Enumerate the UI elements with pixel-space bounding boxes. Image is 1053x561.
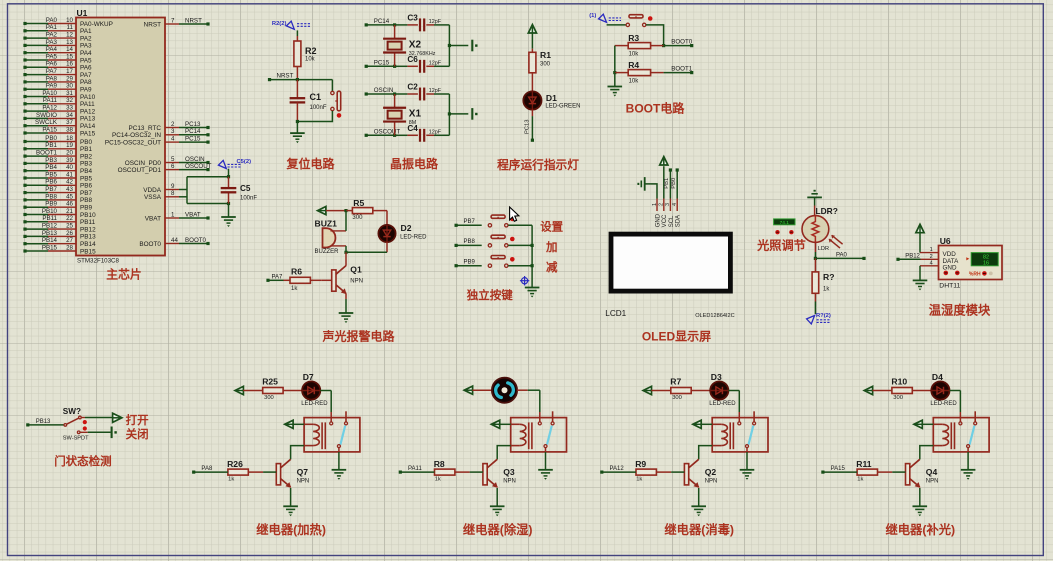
led D7 LED-RED: [302, 381, 320, 399]
svg-text:R3: R3: [628, 33, 639, 43]
pin PB5 of U1 (pin 41, net PB5): [48, 177, 76, 179]
capacitor C1: [296, 80, 298, 99]
svg-text:BUZ1: BUZ1: [315, 219, 338, 229]
svg-text:19: 19: [66, 142, 73, 149]
svg-text:R5: R5: [353, 198, 364, 208]
svg-text:PA12: PA12: [610, 466, 625, 472]
pin PB1 of U1 (pin 19, net PB1): [48, 148, 76, 150]
terminal dot PC13: [531, 139, 534, 142]
svg-text:PB1: PB1: [80, 146, 93, 153]
pin GND of LCD1 (pin 1): [656, 199, 658, 212]
ground (relay contact 消毒): [740, 469, 755, 471]
svg-text:PA15: PA15: [831, 466, 846, 472]
svg-text:8: 8: [171, 190, 175, 197]
wire net PB1 (SCL): [669, 170, 671, 199]
power terminal (消毒): [643, 386, 651, 394]
svg-text:39: 39: [66, 157, 73, 164]
svg-text:U1: U1: [77, 8, 88, 18]
svg-text:设置: 设置: [540, 220, 563, 234]
pin VCC of LCD1 (pin 2): [663, 199, 665, 212]
wire coil to collector (除湿): [497, 446, 511, 460]
wire VDDA/VSSA to C5: [179, 189, 187, 191]
wire coil to collector (补光): [920, 446, 934, 460]
svg-text:12pF: 12pF: [429, 88, 442, 94]
svg-text:R1: R1: [540, 50, 551, 60]
svg-text:声光报警电路: 声光报警电路: [321, 329, 395, 344]
svg-text:PA9: PA9: [80, 87, 92, 94]
pin VDD of U6 (pin 1): [920, 252, 939, 254]
dht11 U6 body: [939, 246, 1003, 280]
svg-text:14: 14: [66, 46, 73, 53]
power terminal (indicator): [528, 25, 536, 33]
wire net PA15: [823, 471, 857, 473]
pin PB7 of U1 (pin 43, net PB7): [48, 192, 76, 194]
relay coil (加热): [304, 423, 313, 425]
svg-text:R11: R11: [856, 459, 872, 469]
svg-text:12: 12: [66, 32, 73, 39]
junction C5 bottom: [227, 202, 230, 205]
svg-text:门状态检测: 门状态检测: [54, 454, 111, 468]
svg-text:32: 32: [66, 97, 73, 104]
power terminal (alarm): [318, 207, 326, 215]
junction OSCIN/X1: [393, 92, 396, 95]
svg-text:30: 30: [66, 83, 73, 90]
svg-text:GND: GND: [943, 265, 957, 272]
led D2 LED-RED: [378, 225, 395, 242]
power terminal (补光): [864, 386, 872, 394]
resistor R? 1k: [814, 258, 816, 272]
svg-text:D1: D1: [546, 93, 557, 103]
svg-text:PA4: PA4: [46, 46, 58, 53]
transistor Q7 NPN: [276, 464, 280, 485]
svg-text:74.1: 74.1: [780, 220, 790, 226]
svg-text:VCC: VCC: [662, 214, 668, 227]
capacitor C4 12pF: [395, 134, 408, 136]
svg-text:R2(2): R2(2): [272, 21, 287, 27]
wire reset button bottom: [297, 111, 332, 122]
ground (DHT11): [913, 279, 928, 281]
svg-text:4: 4: [930, 260, 933, 266]
wire R2 top: [296, 30, 298, 36]
svg-text:4: 4: [171, 136, 175, 143]
svg-text:34: 34: [66, 112, 73, 119]
relay RL (消毒) body: [712, 418, 768, 452]
svg-text:PB0: PB0: [45, 135, 57, 142]
svg-text:1k: 1k: [435, 477, 441, 483]
push-button (BOOT0): [626, 23, 629, 26]
ground (relay contact 加热): [332, 469, 347, 471]
svg-text:C5: C5: [240, 184, 251, 193]
wire net PA0: [815, 257, 864, 259]
wire VCC of LCD1 to power: [663, 166, 665, 198]
dht buttons: [944, 271, 949, 276]
svg-text:D7: D7: [303, 372, 314, 382]
svg-text:12pF: 12pF: [429, 61, 442, 67]
svg-text:PB4: PB4: [80, 168, 93, 175]
svg-text:PB7: PB7: [464, 219, 476, 225]
svg-text:PA7: PA7: [46, 68, 58, 75]
svg-text:Q4: Q4: [926, 467, 938, 477]
svg-text:32.768KHz: 32.768KHz: [409, 51, 436, 57]
svg-text:LED-RED: LED-RED: [301, 401, 328, 407]
svg-text:LED-GREEN: LED-GREEN: [545, 104, 580, 110]
svg-text:16: 16: [983, 261, 989, 267]
junction OSCOUT/X1: [393, 134, 396, 137]
wire relay common to ground (消毒): [746, 452, 748, 470]
svg-text:D4: D4: [932, 372, 943, 382]
svg-text:X2: X2: [409, 40, 422, 51]
svg-text:PA1: PA1: [80, 28, 92, 35]
svg-text:28: 28: [66, 244, 73, 251]
svg-text:PA8: PA8: [46, 75, 58, 82]
svg-text:LED-RED: LED-RED: [709, 401, 736, 407]
pin PB9 of U1 (pin 46, net PB9): [48, 206, 76, 208]
svg-text:PB9: PB9: [80, 205, 93, 212]
wire net BOOT1: [664, 72, 692, 74]
junction LDR/PA0/R?: [814, 257, 817, 260]
svg-text:31: 31: [66, 90, 73, 97]
svg-text:NPN: NPN: [350, 279, 363, 285]
svg-text:R4: R4: [628, 60, 639, 70]
resistor R3 10k: [615, 45, 628, 47]
wire net OSCIN: [366, 93, 394, 95]
svg-text:PA7: PA7: [272, 274, 284, 280]
pin PB14 of U1 (pin 27, net PB14): [48, 243, 76, 245]
svg-text:PC13: PC13: [525, 119, 531, 134]
svg-text:27: 27: [66, 237, 73, 244]
fan/motor symbol: [492, 378, 517, 403]
wire net PB9: [456, 265, 482, 267]
wire GND of LCD1 to side ground: [645, 184, 657, 199]
transistor Q3 NPN: [483, 464, 487, 485]
power terminal (coil 补光): [914, 420, 922, 428]
svg-text:BOOT电路: BOOT电路: [626, 101, 686, 116]
svg-text:R26: R26: [227, 459, 243, 469]
svg-text:2: 2: [171, 121, 175, 128]
svg-text:NRST: NRST: [185, 17, 202, 24]
resistor R2: [296, 36, 298, 41]
junction PC14/X2: [393, 23, 396, 26]
svg-text:Q3: Q3: [503, 467, 515, 477]
brightness display (74.1): [774, 219, 795, 225]
svg-text:26: 26: [66, 230, 73, 237]
adjust dot +: [789, 230, 793, 234]
svg-text:SW-SPDT: SW-SPDT: [63, 435, 89, 441]
relay lever (cyan) (消毒): [749, 426, 754, 445]
junction C5 top: [227, 175, 230, 178]
wire net NRST (reset node): [270, 79, 333, 81]
push-button (PB9): [488, 264, 491, 267]
svg-text:PB12: PB12: [905, 253, 920, 259]
svg-text:100nF: 100nF: [240, 196, 257, 202]
push-button (PB7): [488, 224, 491, 227]
svg-text:37: 37: [66, 119, 73, 126]
svg-text:PA4: PA4: [80, 50, 92, 57]
wire D7 to relay: [320, 390, 331, 392]
svg-text:R7: R7: [670, 377, 681, 387]
pin VSSA of U1 (pin 8): [165, 196, 179, 198]
resistor R1 300: [531, 49, 533, 53]
svg-text:PA9: PA9: [46, 83, 58, 90]
pin PB0 of U1 (pin 18, net PB0): [48, 141, 76, 143]
svg-text:44: 44: [171, 237, 178, 244]
svg-text:继电器(加热): 继电器(加热): [256, 522, 326, 537]
pin GND of U6 (pin 4): [920, 265, 939, 267]
power terminal (除湿): [464, 386, 472, 394]
svg-text:OLED12864I2C: OLED12864I2C: [695, 313, 735, 319]
wire net OSCOUT: [366, 134, 394, 136]
wire net VBAT: [179, 217, 208, 219]
resistor R4 10k: [615, 72, 628, 74]
power terminal (coil 除湿): [491, 420, 499, 428]
svg-text:PB11: PB11: [80, 219, 96, 226]
pin PA3 of U1 (pin 13, net PA3): [48, 44, 76, 46]
wire relay pin1 vertical (补光): [959, 391, 961, 413]
pin SCL of LCD1 (pin 3): [669, 199, 671, 212]
svg-text:82: 82: [983, 254, 989, 260]
svg-text:300: 300: [264, 395, 274, 401]
pin PB12 of U1 (pin 25, net PB12): [48, 228, 76, 230]
svg-text:3: 3: [665, 203, 671, 206]
relay RL (加热) body: [304, 418, 360, 452]
svg-text:PA12: PA12: [80, 108, 96, 115]
wire net PA7: [268, 279, 284, 281]
svg-text:PB12: PB12: [42, 223, 58, 230]
relay contact pins (加热): [330, 422, 333, 425]
relay coil (消毒): [712, 423, 721, 425]
svg-text:SWDIO: SWDIO: [36, 112, 57, 119]
pin PB11 of U1 (pin 22, net PB11): [48, 221, 76, 223]
wire power to VDD: [919, 233, 921, 253]
svg-text:300: 300: [893, 395, 903, 401]
wire net PA8: [194, 471, 228, 473]
svg-text:40: 40: [66, 164, 73, 171]
wire power to fan: [472, 389, 491, 391]
svg-text:12pF: 12pF: [429, 130, 442, 136]
ground (emitter Q2): [691, 505, 706, 507]
relay common contact (除湿): [544, 445, 547, 448]
svg-text:PB14: PB14: [80, 241, 96, 248]
svg-text:46: 46: [66, 201, 73, 208]
svg-text:OSCIN_PD0: OSCIN_PD0: [125, 160, 162, 167]
pin PA5 of U1 (pin 15, net PA5): [48, 59, 76, 61]
relay coil (除湿): [511, 423, 520, 425]
svg-text:PC14: PC14: [185, 128, 201, 135]
wire fan to relay: [517, 389, 528, 391]
capacitor C3 12pF: [395, 24, 408, 26]
pin PA10 of U1 (pin 31, net PA10): [48, 96, 76, 98]
ground (reset circuit): [290, 132, 305, 134]
wire net BOOT0: [664, 45, 692, 47]
svg-text:1k: 1k: [291, 286, 298, 292]
ground (OLED, rotated): [644, 177, 646, 191]
svg-text:PA10: PA10: [80, 94, 96, 101]
svg-text:12pF: 12pF: [429, 19, 442, 25]
svg-text:PB8: PB8: [45, 193, 57, 200]
svg-text:温湿度模块: 温湿度模块: [929, 303, 991, 318]
svg-text:PA14: PA14: [80, 123, 96, 130]
svg-text:D2: D2: [401, 223, 412, 233]
resistor R5 300: [346, 210, 352, 212]
pin PA6 of U1 (pin 16, net PA6): [48, 66, 76, 68]
svg-text:1k: 1k: [636, 477, 642, 483]
wire button PB9 to rail: [508, 265, 532, 267]
svg-text:PC13: PC13: [185, 121, 201, 128]
svg-text:PB8: PB8: [464, 239, 476, 245]
push-button (PB8): [488, 244, 491, 247]
transistor Q4 NPN: [906, 464, 910, 485]
svg-text:45: 45: [66, 193, 73, 200]
svg-text:Q7: Q7: [297, 467, 309, 477]
wire coil supply (消毒): [701, 423, 712, 425]
junction rail PB8: [531, 244, 534, 247]
svg-text:4: 4: [672, 203, 678, 206]
svg-text:NRST: NRST: [144, 21, 161, 28]
mouse cursor: [510, 207, 519, 221]
wire reset button left: [331, 80, 333, 92]
wire D4 to relay: [950, 390, 961, 392]
pin PB8 of U1 (pin 45, net PB8): [48, 199, 76, 201]
relay lever (cyan) (加热): [340, 426, 345, 445]
svg-text:PA12: PA12: [42, 105, 57, 112]
svg-text:SDA: SDA: [676, 215, 682, 227]
svg-text:OSCIN: OSCIN: [374, 87, 394, 94]
ground (emitter Q4): [913, 505, 928, 507]
wire net PC15: [179, 141, 208, 143]
wire net PC13: [179, 127, 208, 129]
svg-text:OSCOUT: OSCOUT: [185, 163, 212, 170]
pin PA12 of U1 (pin 33, net PA12): [48, 110, 76, 112]
wire relay pin1 vertical (加热): [330, 391, 332, 413]
resistor R10 300: [872, 390, 892, 392]
svg-text:100nF: 100nF: [310, 105, 327, 111]
svg-text:PA11: PA11: [43, 97, 58, 104]
resistor R11 1k: [857, 471, 863, 473]
wire coil supply (补光): [922, 423, 933, 425]
svg-text:1: 1: [930, 247, 933, 253]
relay lever (cyan) (补光): [970, 426, 975, 445]
wire relay pin1 vertical (除湿): [539, 412, 541, 422]
wire rail to ground (boot): [614, 73, 616, 87]
power terminal (加热): [235, 386, 243, 394]
svg-text:PB2: PB2: [80, 153, 93, 160]
svg-text:PA13: PA13: [80, 116, 96, 123]
svg-text:8M: 8M: [409, 120, 417, 126]
svg-text:18: 18: [66, 135, 73, 142]
wire R3-R4 left rail: [614, 46, 616, 73]
svg-text:SWCLK: SWCLK: [35, 119, 58, 126]
svg-text:X1: X1: [409, 109, 422, 120]
svg-text:PA5: PA5: [46, 53, 58, 60]
resistor R8 1k: [435, 471, 441, 473]
crystal X2 32.768KHz: [394, 25, 396, 39]
svg-text:1: 1: [171, 211, 175, 218]
svg-text:PC15-OSC32_OUT: PC15-OSC32_OUT: [105, 139, 161, 146]
svg-text:BUZZER: BUZZER: [315, 249, 340, 255]
svg-text:OLED显示屏: OLED显示屏: [642, 329, 711, 343]
relay contact pins (补光): [959, 422, 962, 425]
svg-text:PB7: PB7: [45, 186, 57, 193]
svg-text:PA0: PA0: [836, 252, 848, 258]
relay coil (补光): [933, 423, 942, 425]
dht display: [971, 253, 998, 266]
pin PC14-OSC32_IN of U1 (pin 3): [165, 134, 179, 136]
svg-text:6: 6: [171, 163, 175, 170]
svg-text:PB6: PB6: [45, 179, 57, 186]
pin PC15-OSC32_OUT of U1 (pin 4): [165, 141, 179, 143]
wire D2 to collector node: [386, 242, 388, 252]
wire net OSCOUT: [179, 169, 208, 171]
ldr LDR?: [814, 206, 816, 216]
wire emitter to ground (Q3): [496, 488, 498, 506]
svg-text:3: 3: [171, 128, 175, 135]
wire net PC14: [366, 24, 394, 26]
wire button to BOOT0 node: [646, 25, 664, 46]
svg-text:PB5: PB5: [80, 175, 93, 182]
svg-text:主芯片: 主芯片: [106, 268, 141, 282]
svg-text:15: 15: [66, 53, 73, 60]
svg-text:PA0-WKUP: PA0-WKUP: [80, 21, 113, 28]
svg-text:PB15: PB15: [42, 244, 58, 251]
svg-text:9: 9: [171, 183, 175, 190]
ground (boot circuit): [608, 86, 623, 88]
svg-text:PB14: PB14: [42, 237, 58, 244]
wire R5 to D2: [386, 211, 388, 225]
ground (emitter Q7): [283, 505, 298, 507]
wire coil to collector (消毒): [699, 446, 713, 460]
svg-text:SW?: SW?: [63, 407, 81, 416]
light arrows into LDR: [832, 235, 843, 244]
svg-text:BOOT1: BOOT1: [671, 66, 693, 73]
svg-text:PA11: PA11: [80, 101, 95, 108]
svg-text:13: 13: [66, 39, 73, 46]
pin PB4 of U1 (pin 40, net PB4): [48, 170, 76, 172]
wire button PB8 to rail: [508, 244, 532, 246]
svg-text:300: 300: [540, 62, 551, 68]
svg-text:继电器(除湿): 继电器(除湿): [463, 522, 533, 537]
pin PA7 of U1 (pin 17, net PA7): [48, 74, 76, 76]
junction alarm supply: [344, 209, 347, 212]
svg-text:PA8: PA8: [80, 79, 92, 86]
svg-text:BOOT1: BOOT1: [36, 150, 58, 157]
svg-text:PA15: PA15: [42, 126, 57, 133]
power terminal (closed): [111, 427, 113, 439]
svg-text:%RH: %RH: [969, 272, 981, 278]
svg-text:关闭: 关闭: [126, 427, 149, 441]
capacitor C2 12pF: [395, 93, 408, 95]
junction D2/buzzer/collector: [344, 251, 347, 254]
pin OSCIN_PD0 of U1 (pin 5): [165, 162, 179, 164]
svg-text:22: 22: [66, 215, 73, 222]
relay RL (补光) body: [933, 418, 989, 452]
wire net PB12: [898, 258, 921, 260]
svg-text:SCL: SCL: [669, 215, 675, 227]
relay common contact (加热): [337, 445, 340, 448]
wire emitter to ground (Q4): [919, 488, 921, 506]
pin PB2 of U1 (pin 20, net BOOT1): [48, 155, 76, 157]
wire R? bottom: [814, 302, 816, 315]
svg-text:DHT11: DHT11: [939, 282, 960, 289]
wire right rail X2: [448, 25, 450, 66]
svg-text:PA6: PA6: [46, 61, 58, 68]
svg-text:R2: R2: [305, 46, 317, 56]
pin PA11 of U1 (pin 32, net PA11): [48, 103, 76, 105]
wire LDR to PA0 node: [814, 242, 816, 252]
wire emitter to ground (Q7): [290, 488, 292, 506]
wire emitter to ground (Q2): [698, 488, 700, 506]
svg-text:R?(2): R?(2): [816, 313, 831, 319]
svg-text:复位电路: 复位电路: [285, 156, 335, 171]
